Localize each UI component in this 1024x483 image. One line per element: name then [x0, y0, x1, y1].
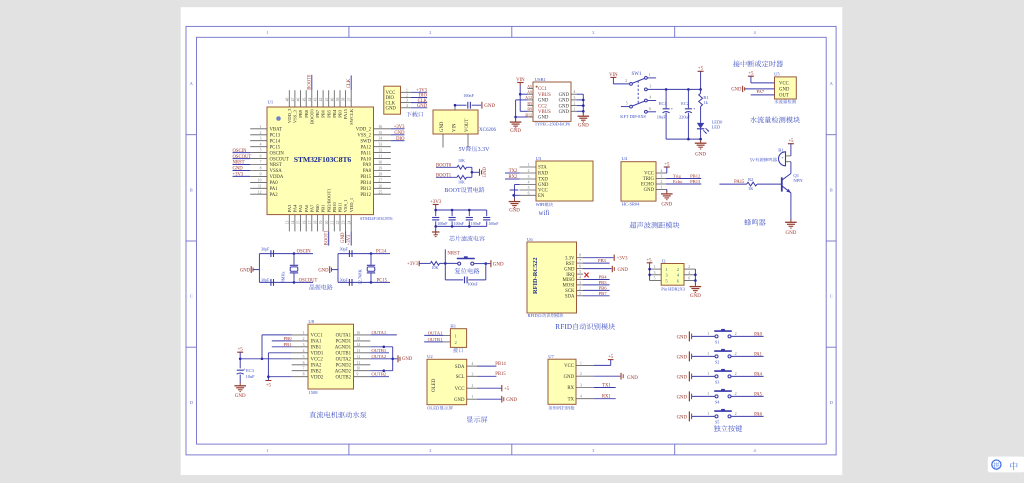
svg-text:PA5: PA5: [298, 204, 303, 212]
svg-text:OUTB2: OUTB2: [336, 375, 352, 380]
svg-text:GND: GND: [483, 167, 488, 178]
svg-text:U6: U6: [527, 237, 533, 242]
svg-text:2: 2: [574, 102, 576, 106]
svg-text:16: 16: [302, 221, 306, 225]
svg-text:OLED: OLED: [427, 406, 440, 411]
svg-text:30pF: 30pF: [261, 277, 270, 282]
svg-text:RX1: RX1: [602, 395, 612, 400]
svg-text:4: 4: [688, 271, 690, 275]
svg-text:100nF: 100nF: [437, 221, 448, 226]
svg-text:1508: 1508: [308, 390, 318, 395]
svg-text:GND: GND: [493, 263, 504, 268]
svg-text:4: 4: [260, 143, 262, 147]
svg-text:U5: U5: [774, 71, 780, 76]
svg-text:GND: GND: [785, 231, 796, 236]
svg-text:S3: S3: [715, 379, 719, 384]
svg-text:GND: GND: [695, 152, 706, 157]
svg-text:10uF: 10uF: [246, 374, 256, 379]
svg-text:3.3V: 3.3V: [478, 147, 491, 153]
svg-text:OUTA1: OUTA1: [428, 331, 443, 336]
svg-text:SCL: SCL: [456, 375, 465, 380]
svg-text:PB11: PB11: [338, 202, 343, 213]
svg-text:36: 36: [379, 125, 383, 129]
svg-text:GND: GND: [661, 203, 672, 208]
svg-text:PA6: PA6: [304, 204, 309, 212]
svg-text:PB12: PB12: [690, 173, 701, 178]
svg-text:15: 15: [297, 221, 301, 225]
svg-text:EC3: EC3: [246, 368, 255, 373]
svg-text:GND: GND: [677, 395, 688, 400]
svg-text:Echo: Echo: [673, 179, 683, 184]
svg-text:PA1: PA1: [270, 187, 279, 192]
svg-text:40: 40: [330, 98, 334, 102]
svg-text:PC15: PC15: [270, 145, 281, 150]
svg-text:30pF: 30pF: [339, 277, 348, 282]
svg-text:B5: B5: [527, 101, 532, 106]
svg-text:B9: B9: [527, 107, 532, 112]
svg-text:14: 14: [357, 343, 361, 347]
svg-text:3: 3: [654, 271, 656, 275]
svg-text:PGND2: PGND2: [336, 363, 352, 368]
svg-text:VCC: VCC: [455, 387, 465, 392]
svg-text:PB2/BOOT1: PB2/BOOT1: [326, 188, 331, 213]
svg-text:1: 1: [661, 186, 663, 190]
svg-text:17: 17: [308, 221, 312, 225]
svg-text:C: C: [190, 294, 193, 299]
svg-text:PA7: PA7: [309, 204, 314, 212]
svg-text:VBAT: VBAT: [270, 128, 283, 133]
svg-text:OUTA2: OUTA2: [336, 357, 352, 362]
svg-text:37: 37: [347, 98, 351, 102]
svg-text:4: 4: [579, 276, 581, 280]
svg-text:U7: U7: [548, 354, 554, 359]
svg-text:31: 31: [379, 155, 383, 159]
svg-text:DIO: DIO: [396, 137, 405, 142]
svg-text:GND: GND: [677, 355, 688, 360]
svg-text:H1: H1: [450, 324, 456, 329]
svg-text:PB1: PB1: [321, 204, 326, 213]
svg-text:32: 32: [379, 149, 383, 153]
svg-text:B: B: [830, 187, 833, 192]
svg-text:RX: RX: [567, 386, 574, 391]
svg-text:16: 16: [357, 331, 361, 335]
svg-text:2: 2: [735, 391, 737, 396]
svg-text:7: 7: [303, 367, 305, 371]
svg-text:A9: A9: [527, 90, 532, 95]
svg-text:100nF: 100nF: [471, 221, 482, 226]
svg-text:+3V3: +3V3: [233, 173, 244, 178]
svg-text:IRQ: IRQ: [566, 273, 575, 278]
svg-text:2: 2: [688, 265, 690, 269]
svg-text:WIFI: WIFI: [536, 202, 545, 207]
svg-text:OSCIN: OSCIN: [233, 149, 248, 154]
svg-text:RST: RST: [566, 262, 575, 267]
svg-text:OLED: OLED: [432, 378, 437, 392]
svg-text:PA10: PA10: [361, 157, 372, 162]
svg-text:PA4: PA4: [754, 372, 763, 377]
svg-text:2: 2: [735, 371, 737, 376]
svg-text:GND: GND: [386, 107, 397, 112]
svg-text:HC-SR04: HC-SR04: [622, 202, 640, 207]
svg-text:MISO: MISO: [563, 278, 576, 283]
svg-text:3: 3: [649, 84, 651, 89]
svg-text:1: 1: [579, 292, 581, 296]
svg-text:21: 21: [330, 221, 334, 225]
svg-text:1: 1: [528, 163, 530, 167]
svg-text:1K: 1K: [748, 186, 754, 191]
svg-text:100nF: 100nF: [468, 282, 479, 287]
svg-text:18: 18: [314, 221, 318, 225]
svg-text:30pF: 30pF: [339, 247, 348, 252]
svg-text:GND: GND: [341, 232, 346, 243]
svg-text:3: 3: [661, 175, 663, 179]
svg-text:GND: GND: [402, 357, 413, 362]
svg-text:39: 39: [336, 98, 340, 102]
svg-text:10uF: 10uF: [657, 115, 667, 120]
svg-text:47: 47: [291, 98, 295, 102]
svg-text:AGND2: AGND2: [335, 369, 352, 374]
svg-text:41: 41: [325, 98, 329, 102]
svg-text:GND: GND: [484, 104, 495, 109]
svg-text:2: 2: [429, 30, 431, 35]
svg-text:8MHz: 8MHz: [281, 271, 286, 282]
svg-text:PB8: PB8: [304, 109, 309, 118]
svg-text:3: 3: [580, 384, 582, 388]
svg-text:VCC: VCC: [779, 82, 789, 87]
svg-text:EC1: EC1: [659, 101, 667, 106]
svg-text:4: 4: [580, 395, 582, 399]
svg-text:GND: GND: [538, 99, 549, 104]
svg-text:10: 10: [258, 178, 262, 182]
svg-text:PB7: PB7: [315, 109, 320, 118]
svg-text:PB6: PB6: [599, 285, 608, 290]
svg-text:VDD_3: VDD_3: [287, 108, 292, 123]
svg-text:10: 10: [357, 367, 361, 371]
svg-text:PA1: PA1: [754, 352, 763, 357]
svg-text:5: 5: [579, 270, 581, 274]
svg-text:+5: +5: [608, 355, 614, 360]
svg-text:8: 8: [579, 254, 581, 258]
svg-text:48: 48: [285, 98, 289, 102]
svg-text:3: 3: [579, 281, 581, 285]
svg-text:VCC: VCC: [564, 364, 574, 369]
svg-text:5: 5: [528, 186, 530, 190]
svg-text:6: 6: [260, 155, 262, 159]
svg-text:OUT: OUT: [779, 94, 789, 99]
svg-text:PB4: PB4: [332, 109, 337, 118]
svg-text:GND: GND: [506, 398, 517, 403]
svg-text:STA: STA: [538, 166, 547, 171]
svg-text:NRST: NRST: [270, 163, 282, 168]
svg-text:EN: EN: [538, 194, 545, 199]
svg-text:PB5: PB5: [599, 280, 608, 285]
svg-text:GND: GND: [559, 104, 570, 109]
svg-text:GND: GND: [627, 376, 638, 381]
svg-text:USB1: USB1: [535, 77, 547, 82]
svg-text:PB3: PB3: [338, 109, 343, 118]
svg-text:6: 6: [649, 106, 651, 111]
svg-text:PB3: PB3: [598, 258, 607, 263]
svg-text:PB15: PB15: [495, 372, 506, 377]
svg-text:4: 4: [406, 104, 408, 108]
svg-text:2: 2: [735, 411, 737, 416]
svg-text:2: 2: [661, 180, 663, 184]
svg-text:1: 1: [707, 331, 709, 336]
svg-text:GND: GND: [677, 375, 688, 380]
svg-text:PB14: PB14: [360, 181, 371, 186]
svg-text:VDD2: VDD2: [311, 375, 324, 380]
svg-text:2: 2: [735, 331, 737, 336]
svg-text:1: 1: [649, 72, 651, 77]
svg-text:C: C: [830, 294, 833, 299]
svg-text:PA15: PA15: [343, 108, 348, 119]
svg-text:5: 5: [260, 149, 262, 153]
svg-text:BOOT1: BOOT1: [324, 230, 329, 246]
svg-text:NRST: NRST: [447, 251, 459, 256]
svg-text:+5: +5: [266, 384, 272, 389]
svg-text:OUTB1: OUTB1: [336, 352, 352, 357]
svg-text:PB6: PB6: [321, 109, 326, 118]
svg-text:PA12: PA12: [361, 145, 372, 150]
svg-text:3.3V: 3.3V: [565, 256, 575, 261]
svg-text:1: 1: [707, 391, 709, 396]
svg-text:38: 38: [342, 98, 346, 102]
svg-text:44: 44: [308, 98, 312, 102]
svg-text:GND: GND: [538, 183, 549, 188]
svg-text:PB4: PB4: [599, 274, 608, 279]
svg-text:+3V3: +3V3: [617, 257, 629, 262]
svg-text:2: 2: [406, 93, 408, 97]
svg-text:VBUS: VBUS: [538, 110, 551, 115]
svg-text:45: 45: [302, 98, 306, 102]
svg-text:VCC: VCC: [644, 172, 654, 177]
svg-text:RX2: RX2: [508, 175, 518, 180]
svg-text:+3V3: +3V3: [347, 234, 352, 245]
svg-text:PA9: PA9: [363, 163, 372, 168]
svg-text:4: 4: [303, 349, 305, 353]
svg-text:3: 3: [472, 372, 474, 376]
svg-text:S2: S2: [715, 359, 719, 364]
svg-text:3: 3: [574, 96, 576, 100]
svg-text:11: 11: [357, 361, 361, 365]
svg-text:PB12: PB12: [360, 193, 371, 198]
svg-text:GND: GND: [509, 209, 520, 214]
svg-text:BOOT0: BOOT0: [308, 74, 313, 90]
svg-text:XC6206: XC6206: [479, 128, 496, 133]
svg-text:PC13: PC13: [270, 133, 281, 138]
svg-text:GND: GND: [644, 188, 655, 193]
svg-text:A5: A5: [527, 84, 532, 89]
svg-text:GND: GND: [618, 268, 629, 273]
svg-text:VBUS: VBUS: [538, 93, 551, 98]
svg-text:GND: GND: [235, 394, 246, 399]
svg-text:STM32F103C8T6: STM32F103C8T6: [360, 216, 393, 221]
svg-text:1: 1: [406, 88, 408, 92]
svg-text:23: 23: [342, 221, 346, 225]
svg-text:CLK: CLK: [347, 78, 352, 88]
svg-text:TX2: TX2: [509, 169, 518, 174]
svg-text:100nF: 100nF: [454, 221, 465, 226]
svg-text:Trig: Trig: [673, 173, 681, 178]
svg-text:NPN: NPN: [793, 178, 803, 183]
svg-text:GND: GND: [559, 99, 570, 104]
svg-text:1: 1: [580, 361, 582, 365]
svg-text:VSSA: VSSA: [270, 169, 283, 174]
svg-text:+3V3: +3V3: [394, 125, 405, 130]
svg-text:4: 4: [649, 95, 651, 100]
svg-text:VDD1: VDD1: [311, 352, 324, 357]
svg-text:U4: U4: [622, 156, 628, 161]
svg-text:GND: GND: [578, 123, 589, 128]
svg-text:OSCOUT: OSCOUT: [270, 157, 289, 162]
svg-text:S1: S1: [715, 339, 719, 344]
svg-text:VCC1: VCC1: [311, 334, 324, 339]
svg-text:PB0: PB0: [284, 336, 293, 341]
svg-text:1: 1: [260, 125, 262, 129]
svg-text:+5: +5: [504, 387, 510, 392]
svg-text:GND: GND: [240, 269, 251, 274]
svg-text:VDD_1: VDD_1: [349, 197, 354, 212]
svg-text:PB7: PB7: [599, 291, 608, 296]
svg-text:6: 6: [303, 361, 305, 365]
svg-text:10K: 10K: [458, 158, 465, 163]
svg-text:OUTA2: OUTA2: [371, 354, 386, 359]
svg-text:1: 1: [266, 30, 268, 35]
svg-text:PA5: PA5: [754, 392, 763, 397]
svg-text:30: 30: [379, 161, 383, 165]
svg-text:34: 34: [379, 137, 383, 141]
svg-text:PA8: PA8: [363, 169, 372, 174]
svg-text:VCC2: VCC2: [311, 357, 324, 362]
svg-text:GND: GND: [677, 335, 688, 340]
svg-text:TX: TX: [568, 397, 575, 402]
svg-text:OUTB1: OUTB1: [371, 348, 387, 353]
svg-text:PGND1: PGND1: [336, 340, 352, 345]
svg-text:VSS_1: VSS_1: [343, 199, 348, 213]
svg-text:VIN: VIN: [453, 123, 458, 132]
svg-text:35: 35: [379, 131, 383, 135]
svg-text:9: 9: [260, 172, 262, 176]
svg-text:VSS_2: VSS_2: [357, 133, 371, 138]
svg-text:VDD_2: VDD_2: [356, 128, 372, 133]
svg-text:PC14: PC14: [270, 139, 281, 144]
svg-text:4: 4: [661, 169, 663, 173]
svg-text:PB10: PB10: [332, 201, 337, 212]
svg-text:26: 26: [379, 184, 383, 188]
svg-text:INB2: INB2: [311, 369, 322, 374]
svg-text:27: 27: [379, 178, 383, 182]
svg-text:4: 4: [528, 181, 530, 185]
svg-text:CC2: CC2: [538, 104, 547, 109]
svg-text:3: 3: [406, 99, 408, 103]
svg-text:7: 7: [260, 161, 262, 165]
svg-text:12: 12: [258, 190, 262, 194]
svg-text:3: 3: [528, 175, 530, 179]
svg-text:42: 42: [319, 98, 323, 102]
svg-text:SW1: SW1: [632, 72, 643, 77]
svg-text:2: 2: [528, 169, 530, 173]
svg-text:OSCIN: OSCIN: [270, 151, 285, 156]
svg-text:U1: U1: [268, 100, 274, 105]
svg-text:1: 1: [472, 395, 474, 399]
svg-text:GND: GND: [318, 269, 329, 274]
svg-text:TRIG: TRIG: [643, 177, 655, 182]
svg-text:RFID-RC522: RFID-RC522: [532, 257, 539, 294]
svg-text:1: 1: [574, 107, 576, 111]
svg-text:8: 8: [303, 373, 305, 377]
svg-text:PB1: PB1: [284, 342, 293, 347]
svg-text:5: 5: [303, 355, 305, 359]
svg-text:4: 4: [574, 90, 576, 94]
svg-text:2: 2: [429, 448, 431, 453]
svg-text:EC2: EC2: [681, 101, 689, 106]
svg-text:1: 1: [654, 265, 656, 269]
svg-text:SWD: SWD: [360, 139, 371, 144]
svg-text:6: 6: [579, 265, 581, 269]
svg-text:PA0: PA0: [754, 332, 763, 337]
svg-text:PA7: PA7: [756, 89, 764, 94]
svg-text:30pF: 30pF: [261, 247, 270, 252]
svg-text:SWCLK: SWCLK: [349, 108, 354, 125]
svg-text:INA2: INA2: [311, 363, 323, 368]
svg-text:11: 11: [258, 184, 262, 188]
svg-text:PA0: PA0: [270, 181, 279, 186]
svg-text:+3V3: +3V3: [407, 262, 419, 267]
svg-text:wifi: wifi: [539, 210, 550, 217]
svg-text:220uF: 220uF: [679, 115, 691, 120]
svg-text:SDA: SDA: [455, 365, 465, 370]
svg-text:PA3: PA3: [287, 204, 292, 212]
svg-text:2: 2: [579, 286, 581, 290]
svg-text:5: 5: [654, 277, 656, 281]
svg-text:29: 29: [379, 166, 383, 170]
svg-text:RFID: RFID: [528, 313, 538, 318]
svg-text:GND: GND: [559, 110, 570, 115]
svg-text:10K: 10K: [432, 265, 439, 270]
svg-text:1: 1: [707, 351, 709, 356]
svg-text:14: 14: [291, 221, 295, 225]
svg-text:STM32F103C8T6: STM32F103C8T6: [294, 155, 352, 164]
svg-text:U3: U3: [536, 156, 542, 161]
svg-text:5: 5: [626, 101, 628, 106]
svg-text:7: 7: [579, 259, 581, 263]
svg-text:3: 3: [303, 343, 305, 347]
svg-text:S5: S5: [715, 419, 719, 424]
svg-text:GND: GND: [510, 129, 521, 134]
svg-text:GND: GND: [454, 398, 465, 403]
svg-text:PA2: PA2: [270, 193, 279, 198]
svg-text:Pin HDR2X3: Pin HDR2X3: [661, 287, 686, 292]
svg-text:2: 2: [625, 78, 627, 83]
svg-text:GND: GND: [690, 294, 701, 299]
svg-text:GND: GND: [233, 167, 244, 172]
svg-text:PB0: PB0: [315, 204, 320, 213]
svg-text:RXD: RXD: [538, 172, 549, 177]
svg-text:24: 24: [347, 221, 351, 225]
svg-text:U8: U8: [308, 319, 314, 324]
svg-text:PB5: PB5: [326, 109, 331, 118]
svg-text:PA6: PA6: [754, 412, 763, 417]
svg-text:TX1: TX1: [602, 383, 611, 388]
svg-text:5V: 5V: [750, 157, 756, 162]
svg-text:6: 6: [688, 277, 690, 281]
svg-text:J2: J2: [662, 258, 667, 263]
svg-text:100nF: 100nF: [488, 221, 499, 226]
svg-text:R2: R2: [748, 177, 753, 182]
svg-text:LED: LED: [712, 125, 721, 130]
svg-text:2: 2: [260, 131, 262, 135]
svg-text:2: 2: [303, 337, 305, 341]
